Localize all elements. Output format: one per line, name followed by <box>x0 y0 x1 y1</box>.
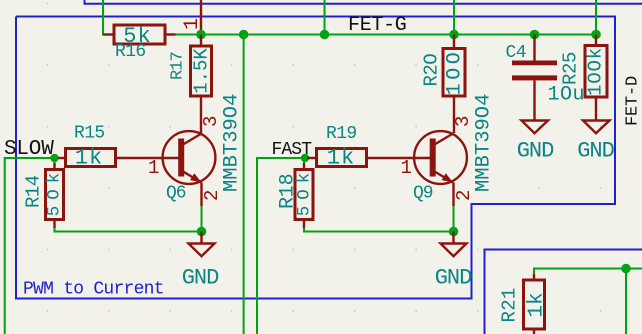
sheet PWM to Current border <box>16 17 615 299</box>
junction top at x=244 <box>239 30 249 40</box>
label R25 <box>560 52 582 85</box>
transistor Q9 <box>367 131 467 206</box>
junction top at C4 <box>530 30 540 40</box>
label R21 <box>499 287 521 322</box>
svg-text:R18: R18 <box>277 174 300 209</box>
svg-text:1: 1 <box>181 18 204 30</box>
wire sheet2 rail <box>534 269 642 275</box>
transistor Q6 <box>116 131 216 206</box>
wire vertical x=257 FAST feed <box>257 158 305 334</box>
ground R25 <box>583 121 610 134</box>
svg-text:PWM to Current: PWM to Current <box>23 280 164 300</box>
svg-text:1: 1 <box>401 157 412 179</box>
label 10u <box>548 84 586 107</box>
wire Q9 emitter <box>453 206 455 232</box>
wire SLOW feed <box>5 158 55 334</box>
label R17 <box>169 52 188 80</box>
junction top at R17 <box>196 30 206 40</box>
junction sheet2 <box>621 264 631 274</box>
svg-text:1k: 1k <box>327 146 355 171</box>
svg-text:2: 2 <box>453 190 475 201</box>
svg-text:R16: R16 <box>115 42 146 62</box>
label GND Q9 <box>435 266 472 291</box>
pin 1 wire top <box>200 0 202 35</box>
ground Q6 <box>189 232 215 257</box>
svg-text:R14: R14 <box>23 175 45 208</box>
pin number 1 top <box>181 18 204 30</box>
resistor R15 <box>58 146 116 171</box>
wire Q6 emitter <box>201 206 203 232</box>
ground Q9 <box>441 232 467 257</box>
label FET-D <box>624 76 642 126</box>
capacitor C4 <box>512 35 557 121</box>
label Q9 <box>413 184 433 204</box>
pin number 2 Q6 <box>201 190 223 201</box>
label MMBT3904 Q6 <box>221 94 244 192</box>
pin number 3 Q6 <box>200 116 222 127</box>
label FAST <box>272 140 313 160</box>
junction top at R20 <box>449 30 459 40</box>
label R20 <box>421 54 443 87</box>
pin number 1 Q6 <box>148 157 159 179</box>
label Q6 <box>166 184 186 204</box>
junction Q6 emitter node <box>197 227 207 237</box>
resistor R17 <box>191 35 213 134</box>
label GND C4 <box>517 139 554 164</box>
sheet name PWM to Current <box>23 280 164 300</box>
junction top at R25 <box>591 30 601 40</box>
label R15 <box>74 124 105 144</box>
label SLOW <box>4 138 54 161</box>
svg-text:GND: GND <box>435 266 472 291</box>
svg-text:1OOk: 1OOk <box>585 47 607 96</box>
resistor R14 <box>45 158 65 228</box>
svg-text:R17: R17 <box>169 52 188 80</box>
svg-text:1k: 1k <box>526 292 549 317</box>
svg-text:5Ok: 5Ok <box>45 167 65 217</box>
label GND R25 <box>577 139 614 164</box>
svg-text:1k: 1k <box>75 146 103 171</box>
svg-text:FET-D: FET-D <box>624 76 642 126</box>
wire sheet2 down <box>625 269 627 334</box>
label R18 <box>277 174 300 209</box>
junction SLOW <box>50 154 58 162</box>
wire top rail FET-G <box>103 0 596 35</box>
resistor R16 <box>103 24 176 49</box>
svg-text:1Ou: 1Ou <box>548 84 586 107</box>
junction FAST <box>301 154 309 162</box>
label R16 <box>115 42 146 62</box>
svg-text:MMBT39O4: MMBT39O4 <box>473 94 496 192</box>
svg-text:MMBT39O4: MMBT39O4 <box>221 94 244 192</box>
junction top at x=324 <box>320 30 330 40</box>
resistor R25 <box>585 35 608 121</box>
svg-text:Q6: Q6 <box>166 184 186 204</box>
svg-text:C4: C4 <box>506 43 526 63</box>
svg-text:R15: R15 <box>74 124 105 144</box>
wire stub up at x=324 <box>324 0 326 35</box>
svg-text:1: 1 <box>148 157 159 179</box>
wire stub right rail up <box>595 0 597 35</box>
svg-text:1.5K: 1.5K <box>191 48 213 94</box>
ground C4 <box>522 121 549 134</box>
pin number 3 Q9 <box>452 116 474 127</box>
resistor R19 <box>307 146 367 171</box>
label FET-G <box>348 14 407 37</box>
svg-text:2: 2 <box>201 190 223 201</box>
wire R18 to Q9 emitter node <box>304 228 454 232</box>
wire R14 to Q6 emitter node <box>55 228 202 232</box>
label GND Q6 <box>182 266 219 291</box>
svg-text:R21: R21 <box>499 287 521 322</box>
svg-text:R2O: R2O <box>421 54 443 87</box>
svg-text:GND: GND <box>577 139 614 164</box>
label R19 <box>326 124 357 144</box>
svg-text:3: 3 <box>452 116 474 127</box>
svg-text:FET-G: FET-G <box>348 14 407 37</box>
svg-text:GND: GND <box>517 139 554 164</box>
svg-text:SLOW: SLOW <box>4 138 54 161</box>
sheet border top fragment <box>85 0 642 4</box>
resistor R21 <box>524 274 549 334</box>
pin number 2 Q9 <box>453 190 475 201</box>
resistor R18 <box>295 158 315 228</box>
svg-text:3: 3 <box>200 116 222 127</box>
svg-text:1OO: 1OO <box>444 49 467 96</box>
resistor R20 <box>443 35 467 134</box>
svg-text:Q9: Q9 <box>413 184 433 204</box>
junction Q9 emitter node <box>449 227 459 237</box>
wire stub up at R20 node <box>453 0 455 35</box>
label MMBT3904 Q9 <box>473 94 496 192</box>
svg-text:R25: R25 <box>560 52 582 85</box>
pin number 1 Q9 <box>401 157 412 179</box>
label R14 <box>23 175 45 208</box>
wire vertical x=244 <box>243 35 245 334</box>
svg-text:R19: R19 <box>326 124 357 144</box>
sheet 2 border bottom right <box>485 250 642 334</box>
label C4 <box>506 43 526 63</box>
svg-text:GND: GND <box>182 266 219 291</box>
